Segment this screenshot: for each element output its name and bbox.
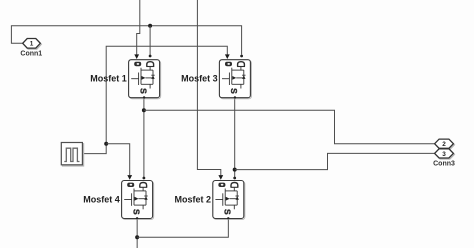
label: Mosfet 4	[83, 195, 120, 205]
svg-text:S: S	[131, 209, 141, 215]
wire: M3 source down to M2 drain (leg B)	[234, 98, 236, 178]
svg-text:Mosfet 2: Mosfet 2	[174, 195, 211, 205]
svg-text:2: 2	[442, 141, 446, 148]
junction: leg A to Conn3 port 2	[142, 108, 146, 112]
svg-text:Mosfet 1: Mosfet 1	[90, 74, 127, 84]
mosfet M1	[129, 60, 161, 99]
label: Conn3	[433, 161, 455, 168]
node: arrowhead into M3 gate	[225, 54, 230, 59]
port Conn3 pin 2	[435, 139, 455, 149]
junction: pulse net branch to M4 gate	[104, 142, 108, 146]
node: arrowhead into M4 gate	[127, 175, 132, 180]
svg-text:Conn1: Conn1	[20, 50, 42, 57]
svg-text:3: 3	[442, 151, 446, 158]
wire: leg A branch to Conn3 port 2	[144, 110, 435, 144]
mosfet M4	[122, 181, 154, 220]
wire: leg B branch to Conn3 port 3	[235, 153, 435, 169]
svg-text:Mosfet 3: Mosfet 3	[181, 74, 218, 84]
mosfet M2	[213, 181, 245, 220]
svg-text:Conn3: Conn3	[433, 161, 455, 168]
node: arrowhead into M2 gate	[218, 175, 223, 180]
mosfet M3	[219, 60, 251, 99]
label: Mosfet 2	[174, 195, 211, 205]
pulse generator block	[61, 143, 83, 167]
wire: top rail drop to M1 drain	[149, 26, 151, 55]
label: Mosfet 3	[181, 74, 218, 84]
wire: pulse net branch to M4 gate	[106, 144, 130, 175]
junction: leg B to Conn3 port 3	[233, 168, 237, 172]
wire: Conn1 to top rail (net V+)	[11, 26, 241, 55]
svg-text:S: S	[229, 88, 239, 94]
wire: gate signal 2 from top edge to M2 gate	[197, 0, 220, 175]
node: M1 drain port dot	[149, 55, 152, 58]
junction: top rail / M1 drain branch	[148, 24, 152, 28]
port Conn1 (pin 1)	[23, 39, 42, 50]
wire: M4 source to bottom rail	[136, 219, 138, 248]
wire: gate signal 1 from top edge to M1 gate	[137, 0, 140, 55]
junction: bottom rail	[135, 235, 139, 239]
node: M4 drain port dot	[143, 177, 146, 180]
label: Mosfet 1	[90, 74, 127, 84]
label: Conn1	[20, 50, 42, 57]
wire: M2 source to bottom rail	[137, 219, 228, 238]
svg-text:Mosfet 4: Mosfet 4	[83, 195, 120, 205]
svg-text:1: 1	[30, 41, 34, 48]
wire: M1 source down to M4 drain (leg A)	[143, 98, 145, 178]
wire: pulse generator output to gate rail	[82, 46, 227, 153]
svg-text:S: S	[138, 88, 148, 94]
svg-text:S: S	[223, 209, 233, 215]
node: arrowhead into M1 gate	[134, 54, 139, 59]
node: M3 drain port dot	[240, 55, 243, 58]
node: M2 drain port dot	[233, 177, 236, 180]
port Conn3 pin 3	[435, 149, 455, 159]
